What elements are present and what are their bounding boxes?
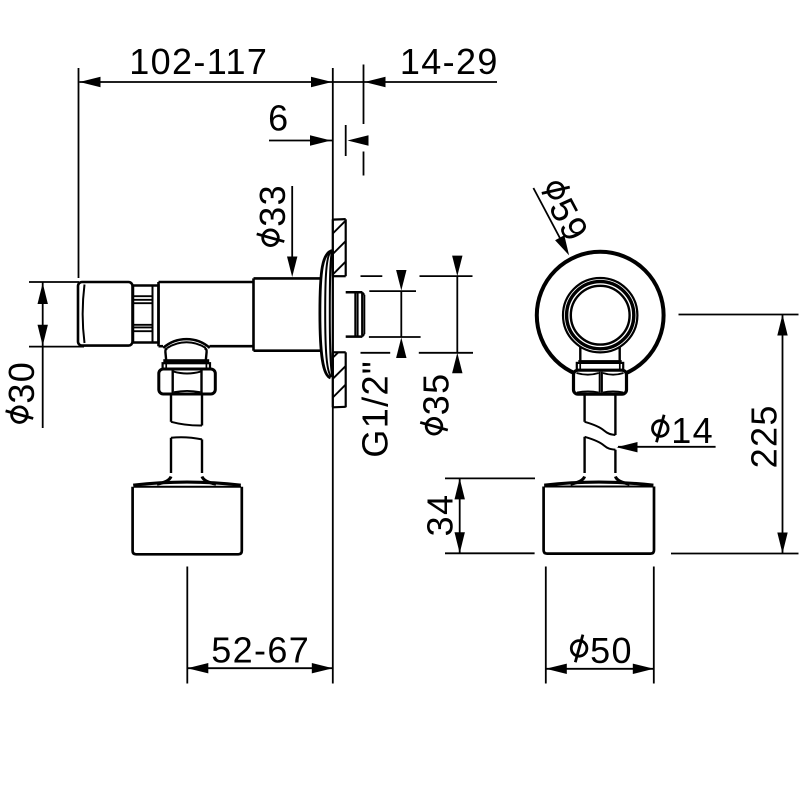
svg-text:52-67: 52-67: [211, 630, 310, 671]
svg-text:225: 225: [743, 404, 784, 468]
svg-text:50: 50: [590, 630, 633, 671]
svg-text:14: 14: [671, 410, 714, 451]
svg-text:34: 34: [420, 494, 461, 537]
svg-text:14-29: 14-29: [400, 41, 499, 82]
svg-text:30: 30: [1, 361, 42, 404]
svg-text:35: 35: [416, 373, 457, 416]
svg-text:G1/2": G1/2": [355, 360, 396, 458]
svg-text:102-117: 102-117: [129, 41, 268, 82]
svg-text:33: 33: [252, 184, 293, 227]
svg-text:6: 6: [268, 98, 289, 139]
